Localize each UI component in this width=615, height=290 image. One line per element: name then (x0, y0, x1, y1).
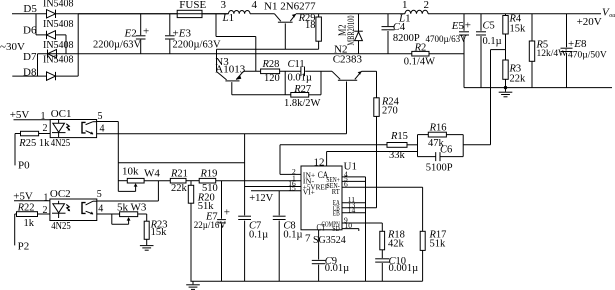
optocoupler OC1 4N25 (50, 120, 96, 138)
svg-text:4700µ/63V: 4700µ/63V (426, 34, 468, 44)
potentiometer W4 10k (118, 180, 127, 182)
svg-text:4: 4 (98, 204, 103, 215)
svg-text:W4: W4 (144, 167, 160, 179)
wire sense pins to ground vertical (365, 177, 367, 281)
svg-text:18: 18 (305, 20, 316, 31)
resistor R21 22k (170, 178, 186, 183)
resistor R15 33k (387, 143, 407, 148)
svg-text:1: 1 (43, 192, 48, 203)
wire DC negative rail (38, 53, 465, 55)
wire ground rail (190, 280, 422, 282)
svg-text:7: 7 (305, 233, 311, 245)
svg-text:C6: C6 (440, 145, 452, 156)
wire C11 node down to R27 node (284, 71, 286, 95)
svg-text:OC1: OC1 (51, 108, 72, 120)
svg-text:C5: C5 (483, 21, 495, 32)
svg-text:270: 270 (382, 106, 398, 117)
wire W3 to R23 (138, 213, 147, 215)
potentiometer W3 5k (120, 212, 138, 217)
svg-text:0.1µ: 0.1µ (283, 230, 302, 241)
svg-text:R15: R15 (390, 131, 408, 142)
capacitor E3 2200u/63V electrolytic (169, 14, 171, 35)
svg-text:22k: 22k (510, 74, 527, 85)
svg-text:SG3524: SG3524 (313, 235, 346, 246)
svg-text:R21: R21 (170, 168, 188, 179)
svg-text:4N25: 4N25 (51, 137, 71, 149)
diode D6 IN5408 (47, 31, 56, 39)
svg-text:MBR20100: MBR20100 (346, 15, 356, 45)
svg-text:0.01µ: 0.01µ (325, 263, 349, 274)
wire top rail segment FUSE to L1 (78, 13, 228, 15)
wire +12V VI+ pin15 line (251, 190, 301, 192)
svg-text:SD: SD (332, 224, 340, 233)
resistor R24 270 (374, 98, 379, 117)
wire R15 to RC network (407, 144, 418, 146)
svg-text:0.001µ: 0.001µ (389, 263, 419, 274)
svg-text:0.1µ: 0.1µ (249, 230, 268, 241)
wire OC2 pin4 to W3 (97, 213, 120, 215)
resistor R28 120 (261, 69, 280, 74)
resistor R27 1.8k/2W (291, 93, 309, 98)
svg-text:D6: D6 (23, 25, 37, 37)
wire pin9 COMPN to R18 (342, 222, 382, 224)
wire C11 to N2 collector (305, 70, 332, 72)
svg-text:10k: 10k (122, 166, 139, 178)
wire D5-D6 vertical (35, 14, 37, 35)
wire R28 to C11 (280, 70, 301, 72)
svg-text:D8: D8 (23, 66, 37, 78)
wire pin4 SEN+ (342, 176, 366, 178)
resistor R17 51k (420, 231, 425, 250)
svg-text:1.8k/2W: 1.8k/2W (284, 98, 321, 109)
wire OC1 pin5 down to pin4 net (97, 121, 119, 123)
svg-text:R25 1k: R25 1k (18, 138, 50, 149)
diode D8 IN5408 (47, 72, 56, 80)
svg-text:0.1/4W: 0.1/4W (404, 57, 435, 68)
transistor N1 2N6277 (278, 21, 293, 23)
wire AC input top line (12, 13, 229, 15)
diode M2 MBR20100 (358, 14, 360, 31)
wire N2 emitter to R24 (362, 70, 377, 72)
svg-text:22µ/16V: 22µ/16V (194, 220, 227, 230)
wire pin10 SD stub (342, 228, 359, 230)
capacitor C6 5100P (435, 152, 437, 161)
wire N3 base to R27 line (232, 94, 291, 96)
resistor R18 42k (380, 231, 385, 250)
transistor N3 A1013 (216, 49, 218, 71)
ground symbol R23 (140, 245, 154, 247)
svg-text:VI+: VI+ (303, 188, 315, 197)
resistor R20 51k (190, 181, 192, 186)
ground symbol main rail (192, 281, 194, 284)
svg-text:E2: E2 (124, 27, 137, 39)
wire OC2 pin5 up to W4-R21 junction (97, 200, 159, 202)
svg-text:15: 15 (288, 183, 296, 192)
wire output bottom rail (464, 87, 612, 89)
svg-text:R19: R19 (200, 168, 218, 179)
wire pin13 CB to R24 (342, 207, 377, 209)
capacitor E8 470u/50V electrolytic (566, 14, 568, 47)
svg-text:2: 2 (43, 123, 48, 134)
capacitor C11 0.01u (300, 67, 302, 77)
capacitor E7 22u/16V electrolytic (221, 181, 223, 219)
svg-text:L1: L1 (222, 12, 235, 24)
svg-text:12: 12 (314, 156, 325, 168)
svg-text:L1: L1 (398, 12, 411, 24)
svg-text:R2: R2 (414, 42, 427, 53)
wire OC1 pin4 long line to N2 base bottom (97, 133, 347, 135)
inductor L1 winding 1-2 (405, 10, 428, 14)
wire bridge output bus vertical (77, 14, 79, 76)
svg-text:OC2: OC2 (50, 188, 71, 200)
svg-text:3: 3 (221, 0, 227, 11)
wire OC1 pin4 drop to W4 (117, 122, 119, 192)
wire pin14 EB (342, 212, 366, 214)
resistor R5 12k/4W (531, 14, 533, 41)
svg-text:D7: D7 (23, 51, 37, 63)
fuse FUSE (177, 10, 202, 17)
wire OC1 pin1 +5V (14, 119, 51, 121)
svg-text:+20V: +20V (577, 16, 602, 28)
resistor R19 510 (199, 178, 216, 183)
wire D8 line AC input bottom (12, 75, 78, 77)
svg-text:15k: 15k (510, 24, 527, 35)
svg-text:5k: 5k (117, 202, 129, 214)
svg-text:2200µ/63V: 2200µ/63V (93, 40, 141, 51)
svg-text:FUSE: FUSE (179, 0, 206, 11)
optocoupler OC2 4N25 (50, 199, 97, 221)
svg-text:R22: R22 (17, 203, 35, 214)
svg-text:+: + (143, 26, 149, 38)
capacitor E2 2200u/63V electrolytic (140, 14, 142, 35)
capacitor C7 0.1u (244, 134, 246, 216)
svg-text:C2383: C2383 (333, 53, 363, 65)
svg-text:P2: P2 (18, 241, 30, 253)
svg-text:2: 2 (424, 0, 430, 11)
capacitor C8 0.1u (278, 191, 280, 216)
wire P2 input (14, 214, 16, 245)
svg-text:IN5408: IN5408 (43, 54, 74, 65)
svg-text:IN5408: IN5408 (43, 0, 74, 10)
OC2 internal LED (58, 201, 60, 213)
transistor N2 C2383 (332, 71, 340, 79)
wire IN+ node to R15 (280, 144, 387, 146)
svg-text:P0: P0 (18, 160, 30, 172)
wire N3 emitter to R28 (244, 70, 261, 72)
wire N1 base line (217, 48, 319, 50)
resistor R3 22k (505, 50, 507, 60)
svg-text:D5: D5 (23, 3, 37, 15)
wire top rail L1 to N1 collector (250, 13, 275, 15)
wire D6-D7 vertical (65, 35, 67, 54)
resistor R2 0.1/4W (412, 51, 429, 56)
wire R21 to R19 (186, 180, 199, 182)
wire OC2 pin1 +5V (14, 200, 50, 202)
svg-text:EB: EB (333, 209, 340, 218)
svg-text:5: 5 (97, 189, 102, 200)
svg-text:120: 120 (264, 73, 280, 84)
diode D5 IN5408 (47, 10, 56, 18)
svg-text:15k: 15k (151, 227, 168, 238)
junction dot R3 to ground rail (504, 86, 507, 89)
OC1 internal phototransistor (82, 122, 86, 132)
svg-text:R28: R28 (262, 59, 280, 70)
capacitor C5 0.1u (480, 14, 482, 31)
inductor L1 winding 3-4 (229, 10, 251, 13)
capacitor E5 4700u/63V electrolytic (463, 14, 465, 31)
svg-text:1: 1 (402, 0, 408, 11)
svg-text:12k/4W: 12k/4W (537, 49, 568, 59)
OC2 internal phototransistor (82, 203, 86, 214)
ground symbol output divider (505, 88, 507, 92)
diode D7 IN5408 (48, 50, 57, 58)
wire W4 to R21 (144, 180, 170, 182)
wire D7-D8 vertical (37, 54, 39, 76)
resistor R25 1k (15, 133, 21, 135)
svg-text:5: 5 (98, 111, 103, 122)
svg-text:470µ/50V: 470µ/50V (568, 51, 607, 61)
wire pin11 EA (342, 202, 366, 204)
wire R19 to IC IN- pin1 (216, 180, 301, 182)
svg-text:E5: E5 (451, 20, 465, 32)
wire top rail tap down to N3 stage (215, 14, 217, 37)
wire pin5 SEN- (342, 180, 366, 182)
wire pin12 CA to compensation network (326, 152, 328, 167)
svg-text:2: 2 (43, 205, 48, 216)
svg-text:33k: 33k (389, 150, 406, 161)
svg-text:+12V: +12V (249, 193, 273, 204)
svg-text:22k: 22k (171, 183, 188, 194)
op-amp U1 SG3524 body (301, 166, 342, 230)
OC1 internal LED (58, 120, 60, 133)
svg-text:51k: 51k (430, 239, 447, 250)
resistor R4 15k (505, 14, 507, 16)
svg-text:4: 4 (100, 123, 105, 134)
svg-text:out: out (609, 13, 615, 19)
svg-text:1: 1 (41, 111, 46, 122)
svg-text:W3: W3 (131, 202, 147, 214)
svg-text:4N25: 4N25 (51, 220, 71, 232)
resistor R22 1k (15, 213, 17, 215)
svg-text:IN5408: IN5408 (43, 40, 74, 51)
svg-text:+: + (224, 207, 230, 219)
svg-text:0.1µ: 0.1µ (483, 36, 502, 47)
wire pin6 RT to R17 (342, 186, 423, 188)
svg-text:+E8: +E8 (568, 38, 587, 50)
svg-text:51k: 51k (198, 201, 215, 212)
svg-text:2200µ/63V: 2200µ/63V (173, 40, 221, 51)
svg-text:+E3: +E3 (173, 27, 192, 39)
wire +5VREF branch line (118, 162, 244, 164)
svg-text:0.01µ: 0.01µ (288, 73, 312, 84)
resistor R23 15k (144, 221, 149, 239)
svg-text:4: 4 (252, 0, 258, 11)
svg-text:IN5408: IN5408 (43, 19, 74, 30)
svg-text:1k: 1k (24, 218, 35, 229)
wire RC network to feedback vertical (463, 144, 490, 146)
wire R24 down to pin13 CB line (376, 116, 378, 207)
svg-text:N1 2N6277: N1 2N6277 (264, 0, 316, 12)
svg-text:RT: RT (332, 187, 340, 196)
wire IN+ pin2 feedback drop (279, 145, 281, 175)
svg-text:A1013: A1013 (215, 64, 245, 76)
svg-text:5100P: 5100P (426, 163, 453, 174)
capacitor C4 8200P (387, 14, 389, 26)
svg-text:~30V: ~30V (0, 41, 25, 53)
compensation network frame (417, 135, 419, 157)
svg-text:R16: R16 (429, 122, 447, 133)
wire top rail N1 emitter to right end (296, 13, 405, 15)
wire feedback from R4-R3 junction down to R16 network (490, 50, 492, 145)
wire R4-R3 junction to feedback (491, 49, 506, 51)
svg-text:+: + (465, 20, 471, 32)
wire P0 input (14, 134, 16, 166)
svg-text:C11: C11 (288, 59, 305, 70)
svg-text:42k: 42k (388, 239, 405, 250)
capacitor C9 0.01u on pin7 CT (318, 230, 320, 260)
svg-text:CT: CT (317, 224, 326, 234)
resistor R29 18 (318, 14, 320, 17)
wire +5VREF pin16 line (245, 186, 301, 188)
resistor R16 47k (428, 132, 446, 137)
wire D6 line (36, 34, 66, 36)
capacitor C10 0.001u (375, 258, 389, 260)
svg-text:R27: R27 (293, 84, 311, 95)
